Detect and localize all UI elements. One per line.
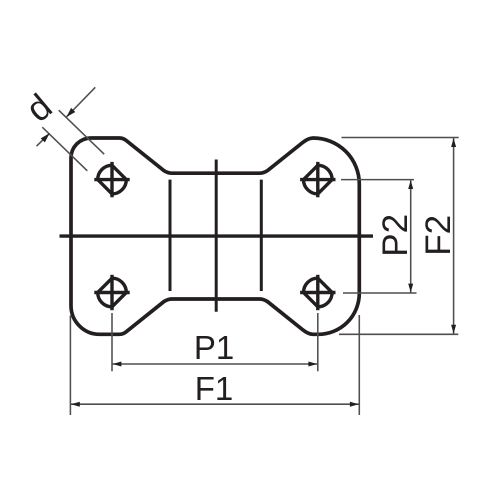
- svg-text:P2: P2: [376, 214, 415, 257]
- svg-text:F2: F2: [419, 215, 458, 256]
- P1 arrowhead right: [308, 362, 317, 367]
- svg-text:P1: P1: [194, 329, 234, 366]
- hole bottom-right with crosshair: [300, 275, 335, 310]
- vertical centerline: [215, 160, 218, 312]
- horizontal centerline: [60, 234, 374, 237]
- F1 dimension line: [70, 403, 359, 405]
- F1 arrowhead left: [71, 402, 80, 407]
- d extension line upper: [59, 110, 104, 154]
- P2 extension line bottom: [343, 292, 417, 294]
- F2 arrowhead top: [451, 138, 456, 147]
- F2 arrowhead bottom: [451, 325, 456, 334]
- hole top-right with crosshair: [300, 162, 335, 197]
- P2 arrowhead top: [408, 180, 413, 189]
- d dimension line lower shaft: [37, 133, 50, 146]
- F1 arrowhead right: [350, 402, 359, 407]
- F1 extension line right: [358, 315, 360, 415]
- P2 extension line top: [341, 179, 414, 181]
- hole top-left with crosshair: [94, 162, 129, 197]
- plate outline: [71, 138, 359, 334]
- d extension line lower: [42, 127, 87, 171]
- d arrowhead lower: [41, 131, 52, 142]
- svg-text:F1: F1: [195, 370, 234, 407]
- P1 arrowhead left: [113, 362, 122, 367]
- P1 dimension line: [112, 363, 318, 365]
- F2 dimension line: [453, 138, 455, 335]
- d dimension line upper shaft: [66, 87, 95, 117]
- P2 dimension line: [410, 180, 412, 293]
- d arrowhead upper: [64, 108, 75, 119]
- P2 arrowhead bottom: [408, 284, 413, 293]
- P1 extension line right: [317, 313, 319, 371]
- F2 extension line bottom: [339, 333, 458, 335]
- P1 extension line left: [111, 313, 113, 371]
- F1 extension line left: [69, 316, 71, 416]
- hole bottom-left with crosshair: [94, 275, 129, 310]
- bend line left: [169, 180, 172, 291]
- F2 extension line top: [342, 137, 459, 139]
- bend line right: [260, 180, 263, 291]
